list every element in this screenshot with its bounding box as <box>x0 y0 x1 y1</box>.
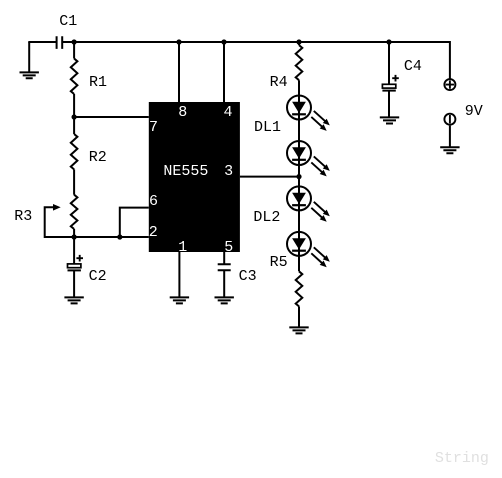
label 9V <box>465 104 483 119</box>
LED DL1 (upper) <box>287 96 330 131</box>
junction (pin 6 wire on pin 2 wire) <box>117 234 122 239</box>
wire (top rail, left segment to C1) <box>28 41 56 43</box>
node (C1 / R1 / rail) <box>72 39 77 44</box>
node (pin 3 on LED chain) <box>296 174 301 179</box>
LED DL2 (upper) <box>287 186 330 221</box>
capacitor C2 (electrolytic) <box>68 237 84 297</box>
pin 6 label <box>149 194 158 209</box>
ground (under battery - terminal) <box>440 147 459 153</box>
wire (pin 3 to LED chain) <box>240 176 299 178</box>
node (pin 4 rail) <box>221 39 226 44</box>
resistor R4 <box>296 42 303 80</box>
wire (pin 5 stem to C3) <box>223 252 225 264</box>
value label NE555 <box>163 164 208 179</box>
R3 wiper arrowhead <box>53 204 61 211</box>
node (R1 / R2 / pin 7) <box>72 114 77 119</box>
pin 3 label <box>224 164 233 179</box>
ground (under C3) <box>215 297 234 303</box>
label DL1 <box>254 120 281 135</box>
label R4 <box>270 75 288 90</box>
capacitor C1 <box>57 36 63 49</box>
ground (under R5) <box>289 327 308 333</box>
ground (under C4) <box>380 117 399 123</box>
resistor R5 <box>296 271 303 327</box>
capacitor C3 <box>218 264 231 297</box>
node (C4 rail) <box>386 39 391 44</box>
node (pin 8 rail) <box>176 39 181 44</box>
pin 8 label <box>178 105 187 120</box>
battery - terminal <box>444 114 455 148</box>
resistor R2 <box>71 117 78 181</box>
watermark String <box>435 451 489 466</box>
label C1 <box>59 14 77 29</box>
label C2 <box>89 269 107 284</box>
pin 1 label <box>178 240 187 255</box>
wire (pin 4 stem from rail) <box>223 42 225 102</box>
potentiometer R3 (rheostat body) <box>71 181 78 237</box>
label R5 <box>270 255 288 270</box>
ground (under pin 1) <box>170 297 189 303</box>
wire (pin 6 jog down to pin 2 wire) <box>120 208 149 237</box>
label R2 <box>89 150 107 165</box>
label C4 <box>404 59 422 74</box>
wire (pin 2 to R2/R3 bottom node) <box>74 236 149 238</box>
pin 5 label <box>224 240 233 255</box>
resistor R1 <box>71 42 78 117</box>
wire (LED column vertical) <box>298 80 300 271</box>
node (R4 rail) <box>296 39 301 44</box>
label R3 <box>14 209 32 224</box>
label R1 <box>89 75 107 90</box>
pin 2 label <box>149 225 158 240</box>
LED DL1 (lower) <box>287 141 330 176</box>
capacitor C4 (electrolytic) <box>382 42 398 117</box>
pin 4 label <box>224 105 233 120</box>
wire (pin 7 to R1/R2 node) <box>74 116 149 118</box>
battery + terminal <box>444 79 455 90</box>
node (R3 / C2 / pin 2) <box>72 234 77 239</box>
label DL2 <box>253 210 280 225</box>
label C3 <box>239 269 257 284</box>
wire (top rail, C1 to right elbow down to battery +) <box>62 42 450 79</box>
ground (under C2) <box>64 297 83 303</box>
wire (pin 1 stem to ground) <box>178 252 180 297</box>
wire (pin 8 stem from rail) <box>178 42 180 102</box>
IC U1 NE555 body <box>149 102 240 252</box>
wire (R3 wiper arm) <box>45 207 74 237</box>
ground (left, under C1 input wire) <box>20 42 39 78</box>
LED DL2 (lower) <box>287 232 330 267</box>
pin 7 label <box>149 120 158 135</box>
